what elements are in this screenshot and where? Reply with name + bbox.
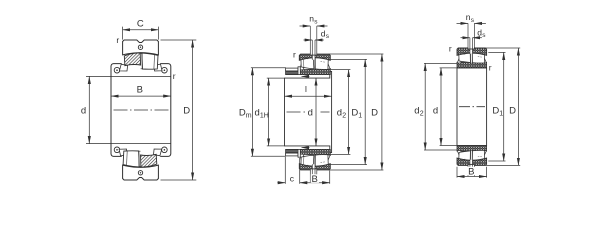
inner ring flange wedge right xyxy=(154,64,162,71)
dim B line xyxy=(300,182,330,184)
hole extension lines top xyxy=(311,40,313,54)
svg-text:1: 1 xyxy=(499,110,503,117)
svg-text:D: D xyxy=(371,107,378,118)
slit arrow xyxy=(302,75,310,77)
inner ring hatched band xyxy=(457,62,487,68)
lubrication groove notch xyxy=(310,53,317,55)
dim D_1 line xyxy=(503,52,505,161)
svg-text:1H: 1H xyxy=(260,112,269,119)
dim D extension lines xyxy=(329,53,384,55)
lubrication groove notch xyxy=(468,47,474,49)
hole edge lines in ring xyxy=(311,54,313,60)
sleeve bore cylinder outline with end steps xyxy=(285,71,332,152)
dim n_s line xyxy=(300,25,311,27)
inner ring shoulder wedge left xyxy=(300,64,305,70)
dim B line xyxy=(457,176,487,178)
lock washer tab xyxy=(298,67,300,75)
center flange xyxy=(140,53,142,68)
dimensions right figure xyxy=(424,23,520,177)
groove wall lines xyxy=(467,47,469,49)
outer ring hatched xyxy=(457,48,487,55)
dim c line xyxy=(277,182,285,184)
roller marks xyxy=(305,59,325,63)
svg-text:r: r xyxy=(173,71,176,81)
roller right inner line xyxy=(153,55,156,69)
inner ring shoulder wedge right xyxy=(483,59,487,63)
hole extension lines top xyxy=(469,38,471,48)
dim C extension lines xyxy=(122,27,124,40)
hole extension lines bottom xyxy=(311,170,313,174)
dim d_2 extension lines xyxy=(328,69,351,71)
dim D extension bottom xyxy=(161,179,197,181)
ext lines B bottom xyxy=(456,167,458,178)
svg-text:d: d xyxy=(81,106,86,117)
centerline left figure xyxy=(114,109,171,111)
locknut xyxy=(286,71,301,75)
dim d_2 line xyxy=(424,63,426,150)
dim D_1 extension lines xyxy=(330,58,368,60)
inner ring flange wedge left xyxy=(119,64,127,71)
guide ring center xyxy=(313,57,315,70)
dim d_2 line xyxy=(348,70,350,155)
dim d line xyxy=(88,76,90,143)
dim d line xyxy=(315,78,317,146)
roller set bottom = 180deg rotation xyxy=(119,149,162,167)
svg-text:r: r xyxy=(449,44,452,54)
svg-text:d: d xyxy=(308,108,313,119)
sleeve hole top-right xyxy=(162,67,168,73)
mask band edges under rollers top xyxy=(122,63,161,71)
sleeve + inner ring hatched band xyxy=(299,68,330,74)
roller right xyxy=(472,52,484,64)
bore shoulder line top xyxy=(86,75,171,77)
svg-text:B: B xyxy=(468,166,474,177)
groove extension lines bottom xyxy=(467,166,469,176)
groove extension lines top xyxy=(467,23,469,47)
roller marks xyxy=(463,54,482,57)
dim d_s line xyxy=(461,37,470,39)
svg-text:2: 2 xyxy=(420,110,424,117)
mirrored bottom half xyxy=(457,146,487,167)
slit strip line xyxy=(286,74,330,76)
sleeve hole bottom-left xyxy=(114,147,120,153)
outer ring hatched xyxy=(299,54,330,60)
svg-text:D: D xyxy=(509,105,516,116)
inner ring shoulder wedge right xyxy=(326,64,330,70)
ext lines c and B bottom xyxy=(284,157,286,184)
svg-text:r: r xyxy=(489,62,492,72)
dim D line xyxy=(192,40,194,180)
svg-text:1: 1 xyxy=(358,112,362,119)
guide ring center xyxy=(471,53,473,64)
dim B line xyxy=(111,95,171,97)
dim d_1H extension lines xyxy=(267,77,285,79)
roller left xyxy=(301,56,314,69)
dim C line xyxy=(123,29,159,31)
mask band edges under rollers bottom xyxy=(122,149,161,157)
dimensions middle figure xyxy=(251,26,384,184)
label B mask xyxy=(467,167,475,175)
groove extension lines bottom xyxy=(309,171,311,183)
svg-text:B: B xyxy=(312,174,318,185)
dim D_1 extension lines xyxy=(488,51,505,53)
dim D line xyxy=(517,48,519,165)
dim D extension top xyxy=(161,39,197,41)
dim d_2 extension lines xyxy=(424,62,457,64)
lubrication hole gap xyxy=(470,48,473,54)
dim D line xyxy=(381,54,383,170)
dim D_m extension lines xyxy=(251,67,286,69)
svg-text:r: r xyxy=(116,35,119,45)
svg-text:l: l xyxy=(305,84,307,94)
bore shoulder line bottom xyxy=(86,143,171,145)
roller left profile line xyxy=(302,56,305,67)
groove wall lines xyxy=(309,53,311,55)
labels right figure xyxy=(414,12,516,177)
dim n_s line xyxy=(457,22,469,24)
dim d_s line xyxy=(304,39,313,41)
dim d_1H line xyxy=(268,78,270,146)
svg-text:C: C xyxy=(137,18,144,29)
mirrored bottom half xyxy=(286,148,331,172)
dim D_m line xyxy=(251,68,253,157)
sleeve hole bottom-right xyxy=(162,147,168,153)
roller right xyxy=(315,56,328,70)
inner ring shoulder wedge left xyxy=(457,58,461,63)
roller right xyxy=(142,53,158,69)
groove extension lines top xyxy=(309,26,311,53)
labels left figure xyxy=(81,18,190,116)
svg-text:m: m xyxy=(246,112,252,119)
dim D_1 line xyxy=(364,59,366,164)
roller left (hatched) xyxy=(124,53,140,66)
lubrication hole gap xyxy=(312,54,315,60)
hole extension lines bottom xyxy=(469,166,471,167)
dim d line xyxy=(440,68,442,146)
dim D extension lines xyxy=(486,47,521,49)
dim d extension lines xyxy=(440,67,457,69)
svg-text:r: r xyxy=(293,49,296,59)
roller left xyxy=(459,51,471,62)
dim l line xyxy=(285,95,332,97)
labels middle figure xyxy=(239,14,378,185)
outer ring top xyxy=(123,40,159,55)
dimensions left figure xyxy=(89,27,196,180)
inner sleeve body (B rect with rounded corners) xyxy=(111,64,171,157)
svg-text:B: B xyxy=(137,84,143,95)
outer ring bottom xyxy=(123,165,159,180)
svg-text:d: d xyxy=(433,105,438,116)
hole edge lines in ring xyxy=(469,48,471,54)
sleeve hole top-left xyxy=(114,67,120,73)
roller set top (left roller sectioned) xyxy=(119,53,162,71)
centerline middle figure xyxy=(287,111,330,113)
svg-text:c: c xyxy=(290,174,295,184)
label B mask xyxy=(311,174,319,183)
centerline right figure xyxy=(459,106,485,108)
svg-text:2: 2 xyxy=(342,112,346,119)
bore cylinder xyxy=(457,68,487,146)
svg-text:D: D xyxy=(183,106,190,117)
